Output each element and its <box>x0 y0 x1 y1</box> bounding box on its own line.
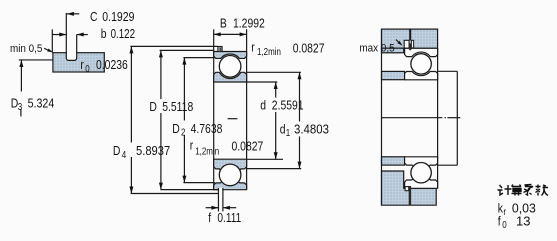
svg-text:0: 0 <box>85 63 89 74</box>
svg-text:5.324: 5.324 <box>28 96 55 111</box>
svg-text:0.1929: 0.1929 <box>102 9 135 24</box>
svg-text:3.4803: 3.4803 <box>294 122 329 137</box>
svg-text:r: r <box>251 40 255 54</box>
svg-text:d: d <box>260 98 266 112</box>
svg-text:D: D <box>149 100 157 114</box>
svg-text:5.5118: 5.5118 <box>162 100 193 114</box>
svg-text:r: r <box>503 206 506 217</box>
svg-text:3: 3 <box>18 101 22 112</box>
svg-text:D: D <box>113 144 121 158</box>
svg-text:4.7638: 4.7638 <box>191 122 223 136</box>
svg-text:1: 1 <box>286 127 290 138</box>
svg-text:0.0827: 0.0827 <box>232 140 264 154</box>
svg-text:2.5591: 2.5591 <box>272 98 304 112</box>
svg-text:D: D <box>172 122 180 136</box>
svg-text:2: 2 <box>181 127 185 138</box>
svg-text:13: 13 <box>516 214 530 229</box>
svg-text:1,2min: 1,2min <box>257 46 281 57</box>
svg-text:0.111: 0.111 <box>217 211 241 225</box>
svg-text:B: B <box>220 16 227 30</box>
svg-text:0.0236: 0.0236 <box>96 58 128 72</box>
svg-text:0.0827: 0.0827 <box>293 41 325 55</box>
svg-text:C: C <box>90 10 98 24</box>
svg-text:1,2min: 1,2min <box>195 146 219 157</box>
svg-text:min 0,5: min 0,5 <box>10 43 43 55</box>
svg-text:5.8937: 5.8937 <box>136 143 170 158</box>
svg-text:max 0,5: max 0,5 <box>359 43 394 55</box>
svg-text:r: r <box>190 138 194 152</box>
svg-text:4: 4 <box>122 149 126 160</box>
svg-text:r: r <box>80 58 84 72</box>
svg-text:1.2992: 1.2992 <box>233 16 265 30</box>
svg-text:d: d <box>280 122 286 136</box>
svg-text:b: b <box>101 27 107 41</box>
svg-text:0.122: 0.122 <box>111 28 135 42</box>
svg-text:0: 0 <box>502 219 506 230</box>
